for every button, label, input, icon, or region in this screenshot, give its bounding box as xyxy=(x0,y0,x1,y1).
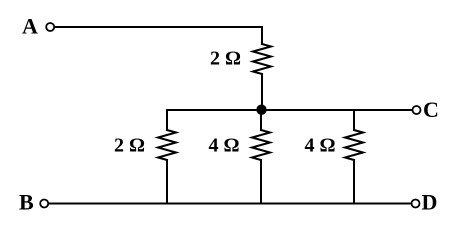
resistor R4 4ohm (right) xyxy=(345,130,363,160)
svg-text:A: A xyxy=(22,14,38,39)
wire left drop xyxy=(166,110,168,130)
wire R1 to node xyxy=(261,74,263,109)
resistor R1 2ohm (top) xyxy=(253,44,271,74)
svg-text:C: C xyxy=(423,97,439,122)
wire node to R3 xyxy=(260,110,262,130)
terminal D circle xyxy=(412,200,420,208)
node junction dot xyxy=(256,105,266,115)
terminal A circle xyxy=(46,23,54,31)
svg-text:2 Ω: 2 Ω xyxy=(210,48,241,70)
wire top rail A to corner xyxy=(55,27,262,44)
svg-text:D: D xyxy=(422,190,438,215)
wire middle rail xyxy=(167,109,412,111)
wire R2 to bottom rail xyxy=(166,160,168,204)
terminal C circle xyxy=(413,106,421,114)
wire right drop xyxy=(353,110,355,130)
wire R4 to bottom rail xyxy=(353,160,355,204)
svg-text:2 Ω: 2 Ω xyxy=(114,135,145,157)
wire R3 to bottom rail xyxy=(260,160,262,204)
terminal B circle xyxy=(40,200,48,208)
svg-text:B: B xyxy=(19,190,34,215)
svg-text:4 Ω: 4 Ω xyxy=(305,135,336,157)
wire bottom rail B to D xyxy=(49,203,411,205)
svg-text:4 Ω: 4 Ω xyxy=(209,135,240,157)
resistor R3 4ohm (middle) xyxy=(252,130,270,160)
resistor R2 2ohm (left) xyxy=(158,130,176,160)
